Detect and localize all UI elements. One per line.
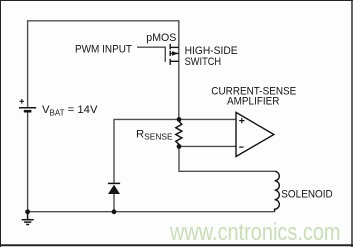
svg-text:PWM INPUT: PWM INPUT [75, 44, 132, 56]
svg-text:www.cntronics.com: www.cntronics.com [169, 219, 340, 246]
svg-text:SOLENOID: SOLENOID [281, 189, 333, 201]
svg-text:pMOS: pMOS [146, 32, 176, 44]
svg-text:SWITCH: SWITCH [185, 56, 222, 68]
svg-text:AMPLIFIER: AMPLIFIER [227, 96, 280, 108]
